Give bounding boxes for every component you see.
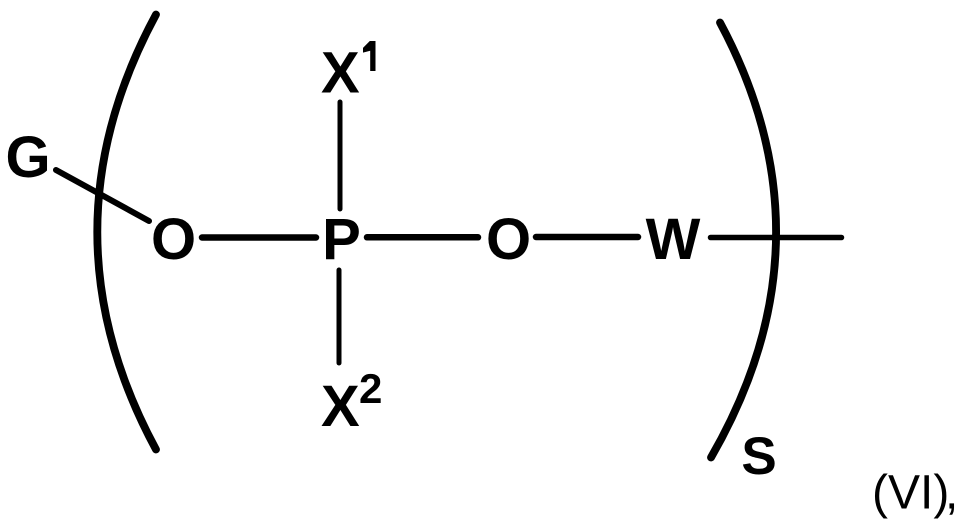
svg-text:O: O	[151, 207, 196, 272]
svg-text:X: X	[321, 41, 360, 106]
wire: W to right end bond	[711, 235, 842, 241]
superscript 1 of X1	[363, 41, 376, 71]
left parenthesis	[97, 15, 156, 450]
wire: P to X2 vertical bond	[337, 270, 342, 363]
wire: P to O bond	[367, 234, 478, 241]
svg-text:W: W	[646, 207, 701, 272]
svg-text:S: S	[741, 427, 776, 486]
right parenthesis	[711, 23, 776, 458]
wire: O to W bond	[536, 234, 638, 241]
svg-text:(VI): (VI)	[872, 467, 949, 520]
svg-text:2: 2	[359, 365, 382, 412]
svg-text:,: ,	[945, 467, 958, 520]
wire: O to P bond	[202, 234, 316, 241]
svg-text:X: X	[321, 374, 360, 439]
svg-text:P: P	[322, 207, 361, 272]
svg-text:O: O	[486, 207, 531, 272]
svg-text:G: G	[5, 125, 50, 190]
wire: X1 to P vertical bond	[338, 102, 343, 209]
wire: G to O diagonal bond	[56, 170, 149, 221]
